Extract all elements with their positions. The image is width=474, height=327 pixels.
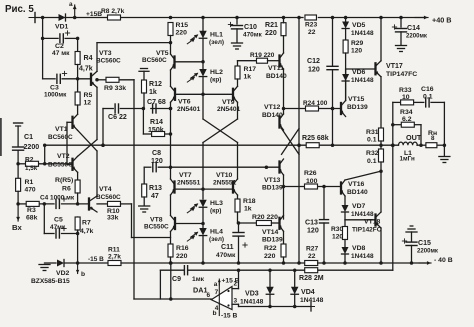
- svg-text:R22: R22: [264, 245, 277, 252]
- svg-text:220: 220: [265, 30, 277, 37]
- svg-text:BD139: BD139: [262, 185, 283, 192]
- svg-text:HL4: HL4: [210, 229, 223, 236]
- svg-text:120: 120: [151, 158, 163, 165]
- svg-text:R30: R30: [331, 226, 343, 233]
- svg-text:VT7: VT7: [179, 172, 192, 179]
- svg-text:BC560C: BC560C: [48, 134, 73, 141]
- svg-text:470: 470: [25, 187, 36, 194]
- svg-text:33k: 33k: [107, 215, 119, 222]
- svg-text:68k: 68k: [26, 215, 38, 222]
- svg-text:(кр): (кр): [210, 208, 221, 215]
- svg-text:12: 12: [84, 100, 92, 107]
- svg-text:BC560C: BC560C: [96, 194, 121, 201]
- svg-text:(кр): (кр): [210, 77, 221, 84]
- svg-text:1000мк: 1000мк: [44, 92, 67, 99]
- svg-text:+15В: +15В: [86, 11, 102, 18]
- svg-text:Рис. 5: Рис. 5: [5, 4, 34, 15]
- svg-text:22: 22: [308, 29, 316, 36]
- svg-text:R32: R32: [366, 150, 379, 157]
- svg-text:1N4148: 1N4148: [300, 297, 324, 304]
- svg-text:BD139: BD139: [347, 104, 368, 111]
- svg-text:HL2: HL2: [210, 69, 223, 76]
- svg-text:C5: C5: [54, 217, 63, 224]
- svg-text:R17: R17: [244, 66, 257, 73]
- svg-text:a: a: [214, 281, 218, 288]
- svg-text:HL1: HL1: [210, 32, 223, 39]
- svg-text:470мк: 470мк: [216, 252, 236, 259]
- svg-text:VT3: VT3: [99, 50, 112, 57]
- svg-text:VT16: VT16: [348, 181, 365, 188]
- svg-text:TIP147FC: TIP147FC: [386, 71, 417, 78]
- svg-text:TIP142FC: TIP142FC: [352, 227, 382, 234]
- svg-text:b: b: [81, 271, 85, 278]
- svg-text:VT4: VT4: [99, 186, 112, 193]
- svg-text:R29: R29: [351, 40, 363, 47]
- svg-text:C8: C8: [152, 150, 161, 157]
- svg-text:4,7k: 4,7k: [79, 66, 93, 73]
- svg-text:VT11: VT11: [268, 65, 284, 72]
- svg-text:2N5401: 2N5401: [177, 106, 201, 113]
- svg-text:VD8: VD8: [352, 245, 366, 252]
- svg-text:+40 В: +40 В: [432, 16, 452, 25]
- svg-text:R28 2M: R28 2M: [299, 275, 324, 282]
- svg-text:VD6: VD6: [352, 69, 366, 76]
- svg-text:10: 10: [402, 94, 410, 101]
- svg-text:C16: C16: [421, 86, 434, 93]
- svg-text:VT6: VT6: [178, 99, 191, 106]
- svg-text:2,7k: 2,7k: [108, 254, 121, 261]
- svg-text:R23: R23: [305, 22, 317, 29]
- svg-text:R5: R5: [84, 92, 93, 99]
- svg-text:100: 100: [306, 178, 318, 185]
- svg-text:R2: R2: [25, 157, 34, 164]
- svg-text:220: 220: [176, 30, 188, 37]
- svg-text:OUT: OUT: [406, 133, 422, 142]
- svg-text:R11: R11: [108, 247, 120, 254]
- svg-text:C15: C15: [418, 240, 431, 247]
- svg-text:R33: R33: [399, 87, 412, 94]
- svg-text:0.1: 0.1: [367, 158, 377, 165]
- svg-text:VT13: VT13: [264, 177, 281, 184]
- svg-text:VT10: VT10: [216, 172, 233, 179]
- svg-text:VT17: VT17: [386, 63, 403, 70]
- svg-text:220: 220: [264, 253, 276, 260]
- svg-text:2N5551: 2N5551: [213, 180, 237, 187]
- svg-text:VD3: VD3: [245, 291, 259, 298]
- svg-text:VT1: VT1: [55, 126, 68, 133]
- svg-text:VT12: VT12: [264, 104, 281, 111]
- svg-text:0.1: 0.1: [367, 137, 377, 144]
- svg-text:1N4148: 1N4148: [240, 299, 264, 306]
- svg-text:1мГн: 1мГн: [400, 156, 415, 163]
- svg-text:-15 В: -15 В: [88, 256, 104, 263]
- svg-text:R34: R34: [400, 109, 413, 116]
- svg-text:1N4148: 1N4148: [351, 77, 374, 84]
- svg-text:R18: R18: [243, 198, 256, 205]
- svg-text:VT8: VT8: [150, 217, 163, 224]
- svg-text:R14: R14: [150, 119, 163, 126]
- svg-text:R8 2,7k: R8 2,7k: [101, 8, 125, 15]
- svg-text:C14: C14: [407, 25, 420, 32]
- svg-text:8: 8: [431, 135, 435, 142]
- svg-text:4,7k: 4,7k: [80, 228, 94, 235]
- svg-text:6.2: 6.2: [402, 116, 412, 123]
- svg-text:BD140: BD140: [347, 189, 368, 196]
- svg-text:120: 120: [307, 228, 319, 235]
- svg-text:1N4148: 1N4148: [351, 30, 374, 37]
- svg-text:R9 33k: R9 33k: [104, 85, 126, 92]
- svg-text:VD4: VD4: [301, 289, 315, 296]
- svg-text:47мк: 47мк: [50, 224, 66, 231]
- svg-text:R25 68k: R25 68k: [302, 135, 329, 142]
- svg-text:VD1: VD1: [55, 24, 69, 31]
- svg-text:C3: C3: [50, 85, 59, 92]
- svg-text:220: 220: [176, 253, 188, 260]
- svg-text:BC550C: BC550C: [48, 162, 73, 169]
- svg-text:1,5k: 1,5k: [25, 165, 38, 172]
- svg-text:b: b: [213, 310, 217, 317]
- svg-text:C13: C13: [305, 220, 318, 227]
- svg-text:R21: R21: [265, 22, 278, 29]
- svg-text:R15: R15: [176, 22, 189, 29]
- svg-text:VT15: VT15: [348, 96, 365, 103]
- svg-text:R3: R3: [27, 207, 36, 214]
- svg-text:2N5551: 2N5551: [177, 180, 201, 187]
- svg-text:6: 6: [207, 292, 211, 299]
- svg-text:(зел): (зел): [209, 39, 224, 46]
- svg-text:BC560C: BC560C: [142, 57, 167, 64]
- svg-text:VD5: VD5: [352, 22, 366, 29]
- svg-text:47: 47: [151, 193, 159, 200]
- svg-text:2200мк: 2200мк: [406, 34, 428, 40]
- svg-text:C12: C12: [307, 58, 320, 65]
- svg-text:C1: C1: [24, 134, 33, 141]
- svg-text:2200мк: 2200мк: [417, 249, 439, 255]
- svg-text:VT2: VT2: [57, 153, 70, 160]
- svg-text:120: 120: [308, 67, 320, 74]
- svg-text:22: 22: [308, 253, 316, 260]
- svg-text:C11: C11: [221, 244, 234, 251]
- svg-text:R1: R1: [25, 179, 34, 186]
- svg-text:VT5: VT5: [156, 50, 169, 57]
- svg-text:a: a: [69, 1, 73, 8]
- svg-text:R13: R13: [149, 185, 162, 192]
- svg-text:R27: R27: [306, 246, 318, 253]
- svg-text:DA1: DA1: [193, 286, 208, 295]
- svg-text:2: 2: [234, 281, 238, 288]
- svg-text:3: 3: [234, 298, 238, 305]
- svg-text:R24 100: R24 100: [303, 100, 328, 107]
- svg-text:-15 В: -15 В: [221, 313, 237, 320]
- svg-text:R6: R6: [62, 186, 71, 193]
- svg-text:Вх: Вх: [12, 223, 22, 232]
- svg-text:BZX585-B15: BZX585-B15: [31, 278, 70, 285]
- svg-text:1N4148: 1N4148: [351, 211, 374, 218]
- svg-text:VD7: VD7: [352, 203, 366, 210]
- svg-text:47 мк: 47 мк: [52, 50, 70, 57]
- svg-text:R4: R4: [84, 55, 93, 62]
- svg-text:R7: R7: [82, 220, 91, 227]
- svg-text:BC560C: BC560C: [96, 58, 121, 65]
- svg-text:C6 22: C6 22: [108, 114, 127, 121]
- svg-text:R31: R31: [366, 129, 379, 136]
- svg-text:- 40 В: - 40 В: [434, 257, 453, 264]
- svg-text:120: 120: [332, 234, 343, 241]
- svg-text:R20 220: R20 220: [252, 214, 278, 221]
- svg-text:R19 220: R19 220: [250, 52, 275, 59]
- svg-text:VT14: VT14: [262, 229, 279, 236]
- svg-text:(зел): (зел): [209, 236, 224, 243]
- svg-text:R16: R16: [176, 245, 189, 252]
- svg-text:C7 68: C7 68: [147, 99, 166, 106]
- svg-text:0.1: 0.1: [423, 94, 433, 101]
- svg-text:HL3: HL3: [210, 200, 223, 207]
- svg-text:R12: R12: [149, 81, 162, 88]
- svg-text:R(R5): R(R5): [55, 177, 73, 184]
- svg-text:1k: 1k: [244, 206, 252, 213]
- svg-text:C2: C2: [55, 43, 64, 50]
- svg-text:1мк: 1мк: [192, 276, 205, 283]
- svg-text:120: 120: [351, 48, 362, 55]
- svg-text:C9: C9: [172, 276, 181, 283]
- svg-text:R26: R26: [304, 170, 317, 177]
- svg-text:470мк: 470мк: [243, 32, 263, 39]
- svg-text:1N4148: 1N4148: [351, 253, 374, 260]
- svg-text:VD2: VD2: [56, 270, 70, 277]
- svg-text:1k: 1k: [149, 89, 157, 96]
- svg-text:150k: 150k: [148, 127, 164, 134]
- svg-text:BD139: BD139: [262, 237, 283, 244]
- svg-text:C10: C10: [244, 24, 257, 31]
- svg-text:1k: 1k: [244, 74, 252, 81]
- svg-text:BC550C: BC550C: [144, 224, 169, 231]
- svg-text:C4 1000 мк: C4 1000 мк: [40, 195, 75, 202]
- svg-text:2200: 2200: [24, 144, 40, 151]
- svg-text:7: 7: [215, 289, 219, 296]
- svg-text:BD140: BD140: [262, 112, 283, 119]
